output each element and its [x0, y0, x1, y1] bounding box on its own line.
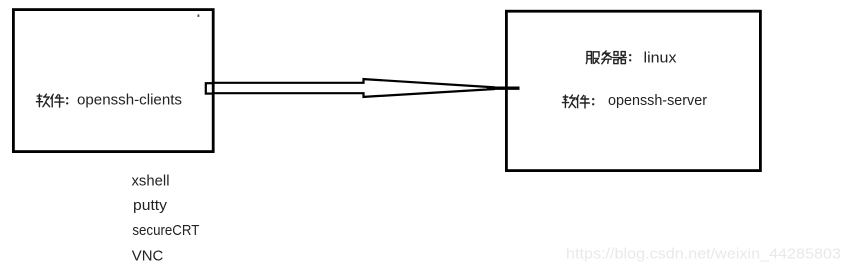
svg-text:openssh-server: openssh-server	[608, 92, 707, 109]
svg-text:xshell: xshell	[132, 173, 170, 190]
svg-text:https://blog.csdn.net/weixin_4: https://blog.csdn.net/weixin_44285803	[566, 247, 841, 263]
left box	[13, 10, 213, 152]
right box	[506, 11, 760, 170]
svg-text:openssh-clients: openssh-clients	[77, 91, 182, 108]
left box label CJK: 软件：	[36, 94, 68, 107]
svg-text:VNC: VNC	[132, 247, 164, 264]
right box line2 CJK: 软件：	[562, 95, 594, 108]
stray dot inside left box	[198, 15, 200, 17]
arrow bottom outline	[213, 89, 495, 97]
arrow tip overshoot	[487, 86, 520, 89]
svg-text:linux: linux	[644, 50, 678, 67]
right box line1 CJK: 服务器：	[586, 51, 631, 64]
arrow top outline	[213, 79, 495, 87]
arrow tail square	[206, 83, 214, 93]
svg-text:putty: putty	[133, 197, 168, 214]
svg-text:secureCRT: secureCRT	[132, 222, 199, 239]
